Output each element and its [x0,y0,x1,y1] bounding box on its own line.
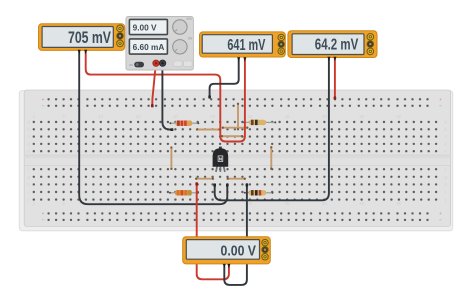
svg-text:+: + [42,97,45,102]
wire jumper across channel right [270,146,272,170]
multimeter M1 red probe tip [84,50,87,55]
resistor R3 [243,120,276,125]
wire power supply positive terminal to rail [152,62,156,106]
svg-text:on: on [129,63,133,67]
wire jumper across channel [170,146,172,170]
svg-text:30: 30 [247,201,252,206]
multimeter M3 black probe tip [327,57,330,62]
svg-text:35: 35 [285,114,290,119]
svg-text:25: 25 [210,114,215,119]
svg-text:i: i [28,190,29,195]
wire jumper vertical col28 [237,103,239,131]
wire multimeter M4 red probe to node H21 (passes behind meter) [197,183,229,279]
svg-text:30V: 30V [186,17,193,21]
svg-text:705 mV: 705 mV [68,28,112,47]
svg-text:40: 40 [322,201,327,206]
multimeter M4 reading 0.00 V [183,237,271,264]
svg-text:30: 30 [247,114,252,119]
svg-text:64.2 mV: 64.2 mV [315,36,359,53]
svg-text:i: i [445,190,446,195]
svg-text:15: 15 [136,114,141,119]
wire multimeter M2 black probe to rail node [210,56,239,98]
svg-text:j: j [444,197,446,202]
svg-text:50: 50 [396,114,401,119]
svg-text:10: 10 [98,114,103,119]
multimeter M3 reading 64.2 mV [288,31,377,58]
svg-text:641 mV: 641 mV [227,37,265,54]
power supply PS1 (9.00 V / 6.60 mA) [126,17,193,71]
svg-text:50: 50 [396,201,401,206]
wire multimeter M3 red probe to rail [334,55,336,99]
wire power supply negative terminal to node B19 [162,62,171,130]
resistor R2 [169,190,199,195]
multimeter M2 red probe tip [243,57,246,62]
wire multimeter M1 black probe to node H13 [79,52,227,205]
svg-text:+: + [439,97,442,102]
multimeter M1 reading 705 mV [39,24,125,51]
multimeter M3 red probe tip [333,57,336,62]
wire jumper row G left [195,178,214,180]
svg-text:−: − [439,218,442,223]
wire jumper row B left [196,128,221,130]
svg-text:45: 45 [359,114,364,119]
svg-text:−: − [42,218,45,223]
transistor Q1 (NPN, TO-92) [213,147,229,172]
wire jumper upper mid [222,127,249,129]
svg-text:+: + [439,211,442,216]
svg-text:0.00 V: 0.00 V [221,243,257,259]
multimeter M4 red probe tip [227,264,230,269]
svg-text:N: N [219,156,222,161]
wire multimeter M4 black probe to node H16 (passes behind meter) [224,185,247,285]
svg-text:5A: 5A [188,36,193,40]
resistor R4 [244,190,274,195]
svg-text:6.60 mA: 6.60 mA [133,42,165,52]
svg-text:35: 35 [285,201,290,206]
svg-text:j: j [27,197,29,202]
svg-text:40: 40 [322,114,327,119]
svg-text:−: − [439,104,442,109]
multimeter M2 black probe tip [237,57,240,62]
wire multimeter M1 red probe to multimeter M2 red probe [86,52,245,142]
multimeter M2 reading 641 mV [200,32,286,57]
svg-text:45: 45 [359,201,364,206]
svg-text:9.00 V: 9.00 V [133,23,157,33]
resistor R1 [169,121,199,126]
multimeter M4 black probe tip [223,264,226,269]
breadboard [19,90,453,231]
multimeter M1 black probe tip [78,50,81,55]
wire jumper row G right [227,178,246,180]
svg-text:20: 20 [173,114,178,119]
svg-text:−: − [42,104,45,109]
wire multimeter M3 black probe to node H11 [215,55,329,200]
wire jumper row C [221,135,243,137]
svg-text:+: + [42,211,45,216]
